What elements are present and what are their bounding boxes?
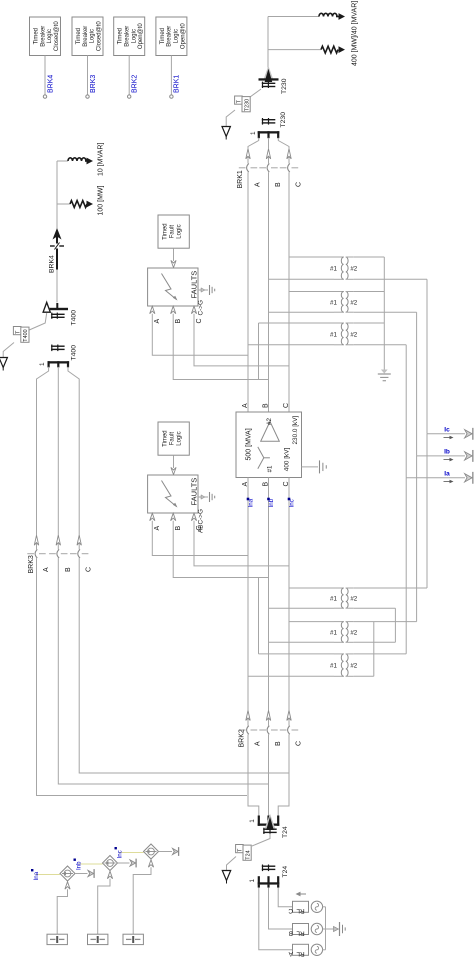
- svg-text:Inb: Inb: [76, 861, 83, 870]
- fan bracket T230: [258, 131, 280, 138]
- svg-text:BRK3: BRK3: [90, 75, 97, 93]
- wire BRK2 to T24 phase C: [278, 734, 289, 815]
- slider control Inb: [88, 934, 108, 944]
- svg-text:B: B: [289, 929, 293, 936]
- svg-text:BRK2: BRK2: [239, 729, 246, 747]
- svg-text:A: A: [255, 741, 262, 746]
- bank2 left wires: [248, 578, 334, 677]
- svg-text:Ina: Ina: [247, 498, 254, 507]
- wire from BRK3 logic block: [86, 56, 89, 99]
- svg-text:Timed: Timed: [163, 430, 169, 446]
- svg-text:A: A: [154, 526, 161, 531]
- signal wire Inb: [78, 863, 103, 865]
- svg-text:Breaker: Breaker: [125, 26, 131, 47]
- label T24 upper: [282, 826, 289, 838]
- svg-text:T230: T230: [280, 112, 287, 128]
- meter Ina input wire: [57, 882, 70, 935]
- svg-text:#2: #2: [350, 331, 357, 338]
- node label BRK1: [174, 75, 181, 93]
- breaker BRK2 contacts: [239, 726, 298, 735]
- signal wire Ina: [36, 874, 61, 876]
- svg-text:T230: T230: [244, 99, 250, 111]
- signal wire T400: [29, 313, 47, 330]
- node label BRK3: [90, 75, 97, 93]
- meter Inb output port: [118, 859, 137, 868]
- svg-text:#1: #1: [330, 629, 337, 636]
- svg-text:T24: T24: [282, 866, 289, 878]
- wire phase B left column lower: [58, 558, 268, 784]
- timed breaker logic block BRK1: [156, 17, 187, 56]
- wire load bus 400kV: [56, 161, 58, 229]
- breaker T230 upper triangle: [259, 66, 279, 88]
- svg-text:#2: #2: [266, 418, 273, 425]
- svg-text:RL: RL: [296, 929, 305, 936]
- fan bracket T24: [258, 816, 280, 826]
- fault 1 input arrows: [150, 306, 197, 314]
- wire phase B 230kV column: [268, 172, 270, 412]
- label BRK4: [49, 255, 56, 273]
- fault 2 phase labels: [154, 525, 203, 530]
- label ABC to G: [198, 509, 205, 533]
- svg-text:BRK3: BRK3: [28, 555, 35, 573]
- breaker BRK1 label: [237, 170, 244, 188]
- transformer bank1 unit 1: [330, 257, 358, 279]
- breaker BRK4 contact: [50, 243, 64, 270]
- svg-text:RL: RL: [296, 950, 305, 957]
- transformer bank2 unit 3: [330, 654, 358, 676]
- wire fault logic 1 to FAULTS: [171, 248, 176, 267]
- breaker BRK3 phase arrows: [34, 535, 81, 545]
- wire fault logic 2 to FAULTS: [171, 455, 176, 474]
- svg-text:FAULTS: FAULTS: [190, 478, 199, 506]
- timed breaker logic block BRK4: [30, 17, 61, 56]
- svg-text:1: 1: [39, 362, 46, 366]
- svg-text:T400: T400: [71, 310, 78, 326]
- svg-text:Logic: Logic: [90, 29, 96, 43]
- signal label box T230: [235, 96, 251, 112]
- transformer bank2 unit 2: [330, 622, 358, 643]
- signal wire T400 to terminator: [3, 343, 14, 358]
- current meter node Inc: [288, 498, 296, 508]
- svg-text:T24: T24: [245, 850, 251, 859]
- svg-text:Fault: Fault: [170, 225, 176, 239]
- current meter node Ina: [247, 498, 255, 508]
- source impedance RL phase A: [288, 944, 309, 957]
- wire phase A 230kV column: [247, 172, 249, 412]
- svg-text:FAULTS: FAULTS: [190, 271, 199, 299]
- wire phase C left column lower: [79, 558, 289, 773]
- bank1 left wires: [248, 257, 334, 380]
- bank1 neutral ground: [378, 368, 391, 381]
- breaker BRK3 wire stubs: [37, 535, 80, 549]
- svg-text:Timed: Timed: [160, 28, 166, 44]
- current source meter Ina: [60, 866, 75, 881]
- breaker BRK2 phase arrows: [246, 711, 291, 721]
- label T230 upper: [281, 78, 288, 94]
- source impedance RL phase C: [288, 901, 308, 914]
- label 1 T400: [39, 362, 46, 366]
- fault 2 input arrows: [150, 513, 197, 521]
- svg-text:Logic: Logic: [131, 29, 137, 43]
- svg-text:T400: T400: [23, 329, 29, 341]
- current meter node Inb: [267, 498, 275, 508]
- signal label box T24: [236, 845, 252, 861]
- svg-text:Breaker: Breaker: [40, 26, 46, 47]
- svg-text:230.0 [kV]: 230.0 [kV]: [292, 415, 299, 444]
- signal wire T230 to terminator: [226, 110, 235, 126]
- svg-text:C->G: C->G: [198, 300, 205, 315]
- svg-text:Open@t0: Open@t0: [138, 23, 144, 49]
- fan bracket T400: [48, 361, 70, 367]
- svg-text:BRK1: BRK1: [174, 75, 181, 93]
- output signal Ic: [427, 427, 473, 440]
- inductor load 40 MVAR: [268, 13, 345, 20]
- meter Inc input wire: [133, 860, 153, 935]
- svg-text:A: A: [154, 319, 161, 324]
- transformer T1 500MVA box: [236, 412, 302, 478]
- svg-text:BRK4: BRK4: [47, 75, 54, 93]
- svg-text:Open@t0: Open@t0: [180, 23, 186, 49]
- transformer bank2 unit 1: [330, 588, 358, 608]
- wire from BRK1 logic block: [170, 56, 173, 99]
- svg-text:C: C: [288, 907, 293, 914]
- fault 1 phase labels: [154, 318, 203, 323]
- fault block FAULTS 1: [148, 268, 199, 306]
- svg-text:Ina: Ina: [33, 871, 40, 880]
- svg-text:Inc: Inc: [117, 850, 124, 858]
- wire sources common bus: [323, 907, 333, 950]
- svg-text:Logic: Logic: [47, 29, 53, 43]
- breaker T230 lower: [262, 112, 287, 128]
- label 400 MW 40 MVAR: [352, 1, 359, 66]
- breaker BRK2 phase labels A B C: [255, 741, 303, 746]
- breaker BRK1 phase labels A B C: [255, 182, 303, 187]
- resistor load 100 MW: [57, 201, 93, 208]
- fault 2 tap wires: [152, 521, 289, 578]
- node label BRK2: [132, 75, 139, 93]
- transformer bank1 unit 2: [330, 292, 358, 313]
- svg-text:A: A: [255, 182, 262, 187]
- source VB sine: [311, 923, 322, 934]
- svg-text:#1: #1: [330, 299, 337, 306]
- breaker BRK2 label: [239, 729, 246, 747]
- fault 2 ground: [198, 492, 215, 502]
- wire phase C 400kV column: [288, 478, 290, 712]
- transformer ground: [302, 460, 327, 473]
- svg-text:Ic: Ic: [444, 427, 450, 434]
- svg-text:#1: #1: [267, 465, 274, 472]
- signal wire T24 to terminator: [227, 857, 237, 871]
- breaker BRK1 phase arrows: [246, 149, 291, 159]
- source impedance RL phase B: [289, 924, 309, 937]
- svg-text:Breaker: Breaker: [83, 26, 89, 47]
- timed breaker logic block BRK2: [114, 17, 145, 56]
- current source meter Inb: [103, 856, 118, 871]
- svg-text:BRK2: BRK2: [132, 75, 139, 93]
- timed fault logic block 1: [158, 215, 189, 248]
- signal wire T230: [250, 89, 261, 97]
- svg-text:100 [MW]: 100 [MW]: [98, 185, 105, 215]
- svg-text:C: C: [296, 182, 303, 187]
- svg-text:Timed: Timed: [76, 28, 82, 44]
- transformer labels A B C top: [242, 403, 290, 408]
- svg-text:400 [kV]: 400 [kV]: [283, 448, 290, 472]
- label 10 [MVAR]: [98, 143, 105, 176]
- wire from BRK2 logic block: [128, 56, 131, 99]
- svg-text:RL: RL: [296, 907, 305, 914]
- svg-text:1: 1: [249, 819, 256, 823]
- fan legs T400: [37, 367, 80, 382]
- terminator T400: [0, 358, 7, 371]
- transformer labels A B C bottom: [242, 481, 290, 486]
- svg-text:A: A: [288, 950, 293, 957]
- source VA sine: [311, 944, 322, 955]
- wire phase A left column lower: [37, 558, 248, 795]
- svg-text:Closed@t0: Closed@t0: [54, 21, 60, 51]
- label C to G: [198, 300, 205, 315]
- wire T24 to source C: [278, 888, 292, 907]
- svg-text:1: 1: [249, 879, 256, 883]
- svg-text:Timed: Timed: [163, 223, 169, 239]
- wire from BRK4 logic block: [43, 56, 46, 99]
- fan bracket T24 lower: [258, 876, 280, 887]
- label 100 [MW]: [98, 185, 105, 215]
- breaker BRK3 label: [28, 555, 35, 573]
- label 1 T230: [250, 131, 257, 135]
- terminator T230: [222, 127, 230, 140]
- svg-text:C: C: [196, 525, 203, 530]
- node label BRK4: [47, 75, 54, 93]
- wire Ia to bank2: [354, 478, 406, 654]
- svg-text:B: B: [275, 182, 282, 187]
- breaker BRK1 contacts: [239, 164, 298, 173]
- fault 1 tap wires: [152, 314, 289, 380]
- fault block FAULTS 2: [148, 475, 199, 513]
- svg-text:Breaker: Breaker: [167, 26, 173, 47]
- node Inb: [74, 859, 83, 871]
- bank1 right wires: [354, 257, 427, 478]
- svg-text:T24: T24: [282, 826, 289, 838]
- sources ground: [334, 922, 346, 936]
- svg-text:Logic: Logic: [174, 29, 180, 43]
- svg-text:B: B: [262, 403, 269, 408]
- svg-text:C: C: [86, 567, 93, 572]
- breaker T24 lower: [262, 865, 289, 878]
- annotation arrow: [296, 892, 307, 897]
- wire T24 to source B: [269, 888, 293, 929]
- fault 1 ground: [198, 285, 215, 295]
- output signal Ib: [417, 449, 473, 462]
- svg-text:Timed: Timed: [34, 28, 40, 44]
- signal label box T400: [13, 327, 29, 343]
- svg-text:Ia: Ia: [444, 471, 450, 478]
- breaker BRK3 contacts: [27, 549, 88, 558]
- svg-text:A: A: [242, 403, 249, 408]
- wire phase C 230kV column: [288, 172, 290, 412]
- label 1 T24 upper: [249, 819, 256, 823]
- svg-text:Timed: Timed: [118, 28, 124, 44]
- wire BRK2 to T24 phase A: [248, 734, 259, 815]
- svg-text:400 [MW]/40 [MVAR]: 400 [MW]/40 [MVAR]: [352, 1, 359, 66]
- svg-text:#2: #2: [350, 299, 357, 306]
- svg-text:500 [MVA]: 500 [MVA]: [246, 428, 253, 460]
- label 1 T24 lower: [249, 879, 256, 883]
- svg-text:BRK4: BRK4: [49, 255, 56, 273]
- meter Ina output port: [75, 869, 94, 878]
- svg-text:#2: #2: [350, 266, 357, 273]
- slider control Ina: [47, 934, 67, 944]
- breaker BRK2 wire stubs: [248, 711, 289, 726]
- node Ina: [31, 869, 40, 881]
- svg-text:Inb: Inb: [268, 498, 275, 507]
- svg-text:1: 1: [250, 131, 257, 135]
- meter Inb input wire: [98, 871, 113, 934]
- wire Ib to bank2: [354, 456, 417, 622]
- wire T24 to source A: [259, 888, 293, 950]
- node Inc: [115, 847, 124, 859]
- svg-text:#1: #1: [330, 331, 337, 338]
- svg-text:#2: #2: [350, 596, 357, 603]
- svg-text:Logic: Logic: [177, 224, 183, 238]
- svg-text:#2: #2: [350, 663, 357, 670]
- svg-text:Inc: Inc: [288, 499, 295, 507]
- breaker T400 lower: [51, 345, 77, 361]
- svg-text:B: B: [175, 319, 182, 324]
- svg-text:C: C: [196, 318, 203, 323]
- svg-text:T400: T400: [71, 345, 78, 361]
- wire phase B left column upper: [57, 382, 59, 535]
- svg-text:#1: #1: [330, 596, 337, 603]
- signal wire T24: [252, 834, 270, 847]
- breaker T24 upper triangle: [263, 814, 277, 834]
- terminator T24: [222, 871, 230, 884]
- wire phase C left column upper: [78, 382, 80, 535]
- wire Ic to bank2: [354, 434, 427, 588]
- breaker T400 upper: [42, 300, 77, 326]
- fan legs T230: [248, 138, 289, 149]
- slider control Inc: [123, 934, 143, 944]
- svg-text:C: C: [296, 741, 303, 746]
- svg-text:B: B: [65, 567, 72, 572]
- wire phase A left column upper: [36, 382, 38, 535]
- svg-text:#1: #1: [330, 266, 337, 273]
- svg-text:B: B: [175, 526, 182, 531]
- output signal Ia: [406, 471, 473, 484]
- svg-text:Fault: Fault: [170, 432, 176, 446]
- svg-text:A: A: [43, 567, 50, 572]
- current source meter Inc: [144, 844, 159, 859]
- wire BRK4 to T400: [56, 270, 58, 303]
- resistor load 400 MW: [268, 46, 345, 53]
- svg-text:B: B: [275, 741, 282, 746]
- breaker BRK4 arrow: [53, 228, 62, 244]
- svg-text:#1: #1: [330, 663, 337, 670]
- svg-text:10 [MVAR]: 10 [MVAR]: [98, 143, 105, 176]
- wire phase A 400kV column: [247, 478, 249, 712]
- svg-text:T230: T230: [281, 78, 288, 94]
- breaker BRK3 phase labels A B C: [43, 567, 93, 572]
- bank2 right wires: [354, 608, 396, 676]
- breaker BRK1 wire stubs: [248, 149, 289, 164]
- inductor load 10 MVAR: [57, 158, 93, 165]
- svg-text:Ib: Ib: [444, 449, 450, 456]
- svg-text:Closed@t0: Closed@t0: [96, 21, 102, 51]
- wire load bus 230kV: [267, 17, 269, 68]
- transformer bank1 unit 3: [330, 323, 358, 345]
- svg-text:Logic: Logic: [177, 431, 183, 445]
- wire BRK2 to T24 phase B: [268, 734, 270, 815]
- source VC sine: [311, 901, 322, 912]
- svg-text:BRK1: BRK1: [237, 170, 244, 188]
- meter Inc output port: [159, 847, 179, 856]
- signal wire Inc: [119, 852, 144, 854]
- svg-text:C: C: [283, 403, 290, 408]
- timed fault logic block 2: [158, 422, 189, 455]
- svg-text:#2: #2: [350, 629, 357, 636]
- wire phase B 400kV column: [268, 478, 270, 712]
- timed breaker logic block BRK3: [72, 17, 103, 56]
